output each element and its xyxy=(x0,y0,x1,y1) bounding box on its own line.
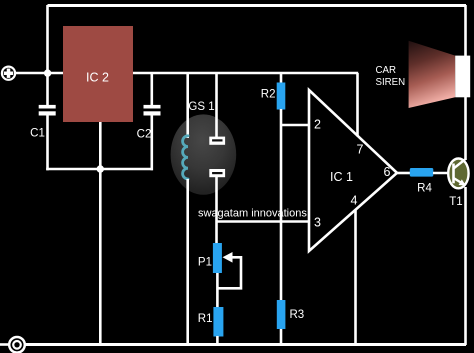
svg-text:SIREN: SIREN xyxy=(376,77,406,88)
wire C2 to ground node xyxy=(151,116,154,171)
gas sensor GS1 body xyxy=(171,114,237,194)
svg-text:IC 1: IC 1 xyxy=(330,170,353,184)
svg-text:3: 3 xyxy=(314,216,321,230)
wire right rail upper (top rail to siren) xyxy=(464,5,467,56)
svg-text:CAR: CAR xyxy=(376,65,396,76)
terminal + positive supply xyxy=(2,67,15,80)
wire R4 to T1 base xyxy=(433,172,450,175)
resistor R3 xyxy=(277,300,286,329)
svg-text:P1: P1 xyxy=(198,257,212,269)
svg-text:swagatam innovations: swagatam innovations xyxy=(198,208,307,220)
wire heater top xyxy=(186,73,189,138)
svg-text:IC 2: IC 2 xyxy=(86,71,109,85)
inductor heater coil of GS1 xyxy=(183,136,188,179)
wire ground node horizontal xyxy=(46,168,153,171)
svg-text:GS 1: GS 1 xyxy=(188,101,214,113)
siren driver xyxy=(455,56,470,98)
node junction at +/C1 xyxy=(44,69,51,76)
transistor T1 xyxy=(448,159,468,189)
wire sensor output to pin3 xyxy=(217,220,311,223)
resistor R4 xyxy=(410,168,434,177)
IC IC2 xyxy=(63,26,133,122)
svg-text:6: 6 xyxy=(384,165,391,179)
wire C2 top stub xyxy=(151,73,154,106)
terminal - negative supply xyxy=(0,343,10,346)
electrode bottom plate of GS1 xyxy=(209,169,225,177)
potentiometer P1 xyxy=(213,243,222,273)
svg-text:R2: R2 xyxy=(261,88,276,100)
wire pin 6 output to R4 xyxy=(396,172,411,175)
wire transistor emitter to bottom rail xyxy=(464,187,467,345)
svg-text:C2: C2 xyxy=(137,129,152,141)
svg-text:4: 4 xyxy=(351,194,358,208)
wire pin 7 xyxy=(356,73,359,137)
electrode top plate of GS1 xyxy=(209,137,225,145)
wire siren to transistor collector xyxy=(464,97,467,160)
wire R2 top stub xyxy=(280,73,283,84)
resistor R1 xyxy=(213,307,223,337)
siren horn cone xyxy=(409,41,456,108)
svg-text:7: 7 xyxy=(357,143,364,157)
wire R2 down through pin2 node to R3 xyxy=(280,109,283,301)
wire sensor electrode top stub xyxy=(215,73,218,137)
wire left vertical from top rail to C1 xyxy=(46,5,49,106)
wire P1 to R1 xyxy=(216,273,219,308)
wire R3 to bottom rail xyxy=(280,329,283,345)
wire bottom rail xyxy=(24,343,466,346)
wire pin 2 xyxy=(281,124,310,127)
wiper arrow of P1 xyxy=(223,252,233,263)
capacitor C2 xyxy=(144,105,161,109)
wire R1 to bottom rail xyxy=(216,336,219,345)
svg-text:T1: T1 xyxy=(449,196,462,208)
svg-text:2: 2 xyxy=(314,118,321,132)
wire junction to bottom rail xyxy=(99,169,102,345)
wire top supply rail xyxy=(48,4,467,7)
resistor R2 xyxy=(277,83,286,110)
wire IC2 bottom to ground node xyxy=(99,122,102,170)
svg-text:C1: C1 xyxy=(30,128,45,140)
wire + terminal to IC2 xyxy=(15,72,64,75)
wire pin 4 to bottom rail xyxy=(354,210,357,345)
op-amp IC1 triangle xyxy=(309,90,397,251)
wire C1 to ground node xyxy=(46,116,49,171)
svg-text:R3: R3 xyxy=(290,309,305,321)
wire IC2 output rail xyxy=(133,72,358,75)
svg-text:R4: R4 xyxy=(417,183,432,195)
wire sensor output down to P1 xyxy=(215,177,218,245)
svg-text:R1: R1 xyxy=(198,313,213,325)
node junction below IC2 xyxy=(97,165,104,172)
wire heater bottom to bottom rail xyxy=(186,179,189,345)
capacitor C1 xyxy=(39,105,56,109)
